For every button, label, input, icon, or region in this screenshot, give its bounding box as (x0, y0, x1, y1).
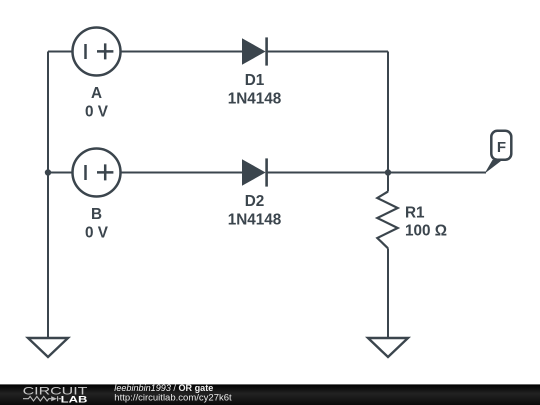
CircuitLab logo wordmark (23, 385, 88, 405)
svg-text:1N4148: 1N4148 (228, 90, 282, 107)
wire left rail (47, 52, 49, 339)
voltage source V2 (B) (73, 149, 121, 197)
junction dot at left rail row 2 (45, 169, 51, 175)
svg-text:D1: D1 (245, 72, 265, 89)
wire node to flag F (388, 172, 486, 174)
junction dot at node F (385, 169, 391, 175)
flag F (node F) (485, 131, 512, 174)
CircuitLab logo resistor-diode squiggle (23, 396, 61, 401)
svg-text:100 Ω: 100 Ω (405, 223, 447, 240)
wire resistor top lead (387, 173, 389, 192)
wire top row: diode D1 to right rail (267, 51, 389, 53)
resistor R1 (377, 192, 397, 249)
svg-text:R1: R1 (405, 205, 425, 222)
diode D1 (242, 37, 267, 65)
ground (right) (368, 338, 408, 357)
svg-text:1N4148: 1N4148 (228, 211, 282, 228)
diode D2 (242, 158, 267, 186)
svg-text:D2: D2 (245, 193, 265, 210)
wire row 2: diode D2 to node (267, 172, 389, 174)
wire top row: rail to source A (48, 51, 73, 53)
wire row 2: source B to diode D2 (121, 172, 243, 174)
wire right rail (387, 52, 389, 173)
svg-text:LAB: LAB (61, 394, 88, 405)
voltage source V1 (A) (73, 28, 121, 76)
wire row 2: rail to source B (48, 172, 73, 174)
wire resistor bottom lead (387, 248, 389, 338)
svg-text:A: A (91, 85, 102, 102)
svg-text:0 V: 0 V (85, 224, 109, 241)
svg-text:B: B (91, 206, 102, 223)
wire top row: source A to diode D1 (121, 51, 243, 53)
svg-text:F: F (497, 139, 506, 156)
svg-text:0 V: 0 V (85, 103, 109, 120)
svg-text:http://circuitlab.com/cy27k6t: http://circuitlab.com/cy27k6t (114, 393, 232, 403)
ground (left) (28, 338, 68, 357)
